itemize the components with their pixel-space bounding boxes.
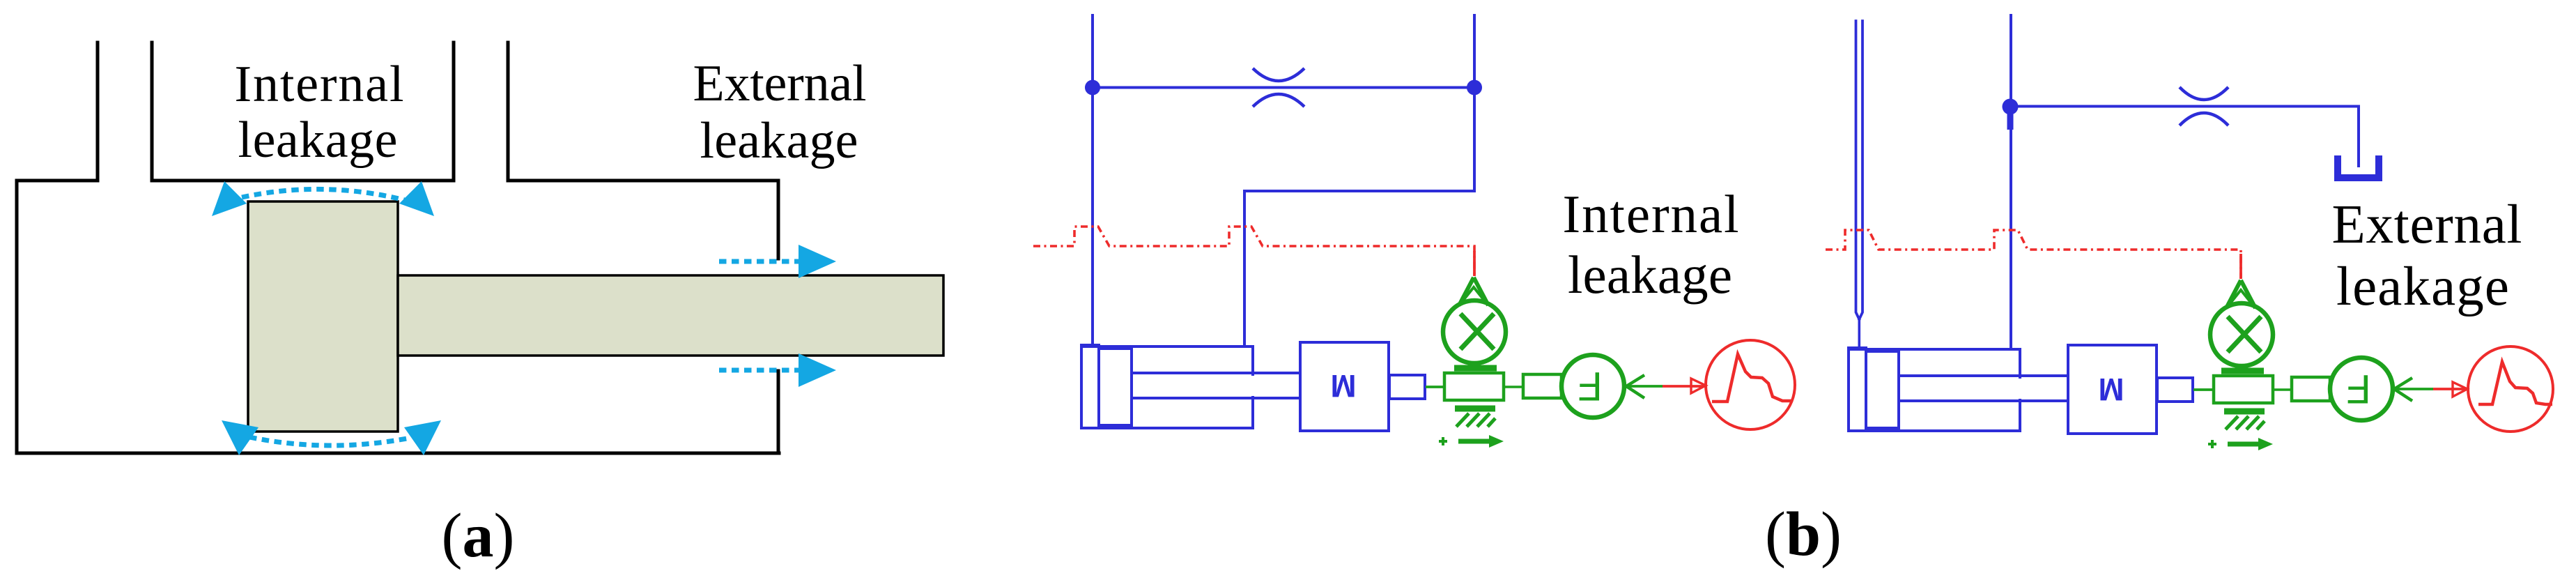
X displacement transducer (right circuit) <box>2210 254 2273 371</box>
funnel <box>2226 280 2255 308</box>
port 2 right wall <box>507 43 510 181</box>
friction / endstop block (left circuit) <box>1439 373 1504 448</box>
junction node <box>2003 99 2019 115</box>
cylinder body left wall <box>17 181 779 453</box>
plus sign <box>2208 440 2216 448</box>
orifice R2 <box>2180 87 2228 125</box>
rod top line <box>1132 372 1300 374</box>
hydraulic cylinder (right circuit) <box>1849 348 2068 431</box>
left cap <box>1081 345 1099 428</box>
svg-text:leakage: leakage <box>2336 257 2509 317</box>
signal dash-dot line (right circuit) <box>1826 230 2241 279</box>
force sensor connector (left circuit) <box>1504 374 1561 398</box>
junction node right <box>1467 80 1482 96</box>
internal leakage dashed arc bottom <box>249 437 407 445</box>
port 1 left wall <box>96 43 100 181</box>
svg-text:(a): (a) <box>442 501 515 570</box>
port 1 right wall <box>151 43 154 181</box>
wire: right vertical upper <box>1473 15 1476 191</box>
small triangle <box>1463 287 1485 301</box>
signal arrowhead into F <box>2394 378 2412 401</box>
rod stub right of M <box>1389 375 1425 399</box>
external leakage dashed arrow top <box>719 259 799 264</box>
svg-text:External: External <box>2332 195 2522 255</box>
svg-text:Internal: Internal <box>235 56 404 113</box>
signal arrowhead into F <box>1626 375 1644 398</box>
hydraulic cylinder (left circuit) <box>1081 345 1300 428</box>
rod stub right of M <box>2157 378 2193 402</box>
red signal segment <box>2433 388 2467 390</box>
leak drain double line <box>1856 21 1863 319</box>
leak drain single segment to cylinder <box>1858 319 1861 349</box>
svg-text:F: F <box>2346 366 2370 411</box>
signal dash-dot line (left circuit) <box>1033 227 1474 276</box>
wire: top horizontal <box>1093 86 1474 89</box>
svg-text:(b): (b) <box>1765 500 1842 569</box>
cylinder top wall right segment <box>508 179 778 183</box>
piston <box>1866 351 1899 428</box>
piston rod <box>398 275 943 356</box>
internal leakage arrowhead bottom-left <box>222 420 259 455</box>
X mark <box>1460 314 1494 349</box>
waveform <box>1712 354 1793 402</box>
mass block M (left circuit) <box>1300 342 1389 431</box>
svg-text:M: M <box>2099 372 2124 407</box>
svg-text:leakage: leakage <box>238 112 398 169</box>
wire: supply vertical <box>2010 15 2012 349</box>
cylinder top wall middle segment <box>152 179 454 183</box>
signal source circle (right circuit) <box>2453 346 2553 432</box>
mass block M (right circuit) <box>2068 345 2157 434</box>
rod top line <box>1899 374 2068 377</box>
pedestal <box>1454 365 1497 372</box>
wire: left supply vertical <box>1091 15 1094 346</box>
svg-text:M: M <box>1331 368 1357 404</box>
signal source circle (left circuit) <box>1691 340 1795 429</box>
link M to friction block <box>1426 386 1444 388</box>
red stub into transducer <box>2239 254 2242 279</box>
cylinder top wall left segment <box>17 179 98 183</box>
orifice R1 <box>1253 68 1304 107</box>
piston <box>248 201 398 432</box>
internal leakage arrowhead top-right <box>399 181 434 216</box>
force sensor connector (right circuit) <box>2273 377 2330 401</box>
internal leakage dashed arc top <box>242 189 405 200</box>
small triangle <box>2230 290 2252 304</box>
rod bottom line <box>1899 399 2068 402</box>
red signal segment <box>1663 385 1705 388</box>
wire: down to tank <box>2357 107 2360 167</box>
plus sign <box>1439 437 1447 445</box>
waveform <box>2478 362 2552 404</box>
svg-text:leakage: leakage <box>1568 245 1732 305</box>
green signal segment <box>1626 385 1663 388</box>
barrel <box>1849 349 2020 431</box>
wire: corner to cylinder right port <box>1244 191 1474 346</box>
pedestal <box>2221 368 2264 374</box>
rod bottom line <box>1132 397 1300 399</box>
X mark <box>2228 317 2261 352</box>
green signal segment <box>2394 388 2433 390</box>
ground bar below <box>2224 409 2265 415</box>
external leakage dashed arrow bottom <box>719 368 799 373</box>
displacement arrow <box>2228 442 2258 447</box>
ground bar below <box>1455 406 1495 412</box>
junction node left <box>1085 80 1100 96</box>
svg-text:F: F <box>1578 363 1602 409</box>
svg-text:leakage: leakage <box>700 112 858 169</box>
svg-text:Internal: Internal <box>1563 184 1739 244</box>
friction / endstop block (right circuit) <box>2208 376 2273 450</box>
cylinder right wall upper segment <box>777 181 780 259</box>
circle <box>1443 300 1506 363</box>
cylinder right wall lower segment <box>777 371 780 453</box>
funnel <box>1459 277 1488 305</box>
hatching <box>2226 416 2265 429</box>
red stub into transducer <box>1473 251 1476 276</box>
X displacement transducer (left circuit) <box>1443 251 1506 368</box>
circle <box>2210 303 2273 366</box>
piston <box>1099 349 1132 425</box>
force source F (left circuit) <box>1561 355 1624 418</box>
hatching <box>1456 413 1495 427</box>
internal leakage arrowhead bottom-right <box>404 420 441 455</box>
wire: top horizontal <box>2011 105 2359 108</box>
left cap <box>1849 348 1866 431</box>
white gap in barrel right edge for rod <box>1250 376 1256 396</box>
port 2 left wall <box>452 43 456 181</box>
barrel <box>1081 346 1253 428</box>
tank symbol <box>2338 155 2379 178</box>
white gap in barrel right edge for rod <box>2017 379 2023 399</box>
svg-text:External: External <box>693 55 867 112</box>
force source F (right circuit) <box>2330 358 2393 420</box>
link M to friction block <box>2193 388 2214 391</box>
internal leakage arrowhead top-left <box>212 181 247 216</box>
displacement arrow <box>1458 439 1489 444</box>
